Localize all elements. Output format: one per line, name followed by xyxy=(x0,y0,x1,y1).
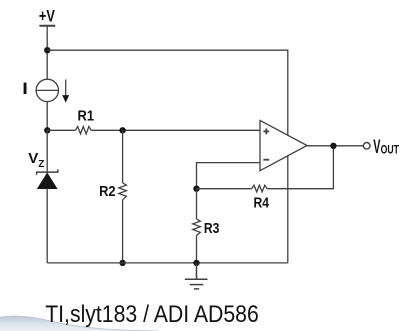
caption: TI,slyt183 / ADI AD586 xyxy=(45,301,259,328)
wire: R2 bottom lead xyxy=(122,200,124,263)
resistor R1 xyxy=(75,127,91,134)
junction: R3 / R4 feedback node xyxy=(193,186,199,192)
junction: zener / R1 node xyxy=(44,127,50,133)
junction: +V top-rail tap xyxy=(44,47,50,53)
junction: output node xyxy=(330,143,336,149)
svg-text:R4: R4 xyxy=(254,195,270,212)
wire: +V bar down to current source xyxy=(46,26,48,80)
op-amp non-inverting input mark + xyxy=(263,129,269,135)
svg-text:V: V xyxy=(373,137,380,158)
label VOUT xyxy=(373,137,399,158)
wire: R4 to output node xyxy=(267,146,333,189)
svg-text:R1: R1 xyxy=(78,108,95,125)
+V terminal bar xyxy=(39,25,55,27)
label I xyxy=(24,83,27,94)
wire: zener anode to ground rail xyxy=(46,189,48,263)
label R4 xyxy=(254,195,270,212)
wire: inverting input to feedback node xyxy=(197,163,261,189)
resistor R4 xyxy=(252,185,268,192)
wire: node down to zener cathode xyxy=(46,130,48,172)
zener diode Vz cathode bar xyxy=(37,170,58,175)
+V label xyxy=(39,7,55,25)
wire: R2 top lead xyxy=(122,130,124,183)
svg-text:R3: R3 xyxy=(204,220,220,237)
label R1 xyxy=(78,108,95,125)
junction: ground node xyxy=(193,260,199,266)
svg-text:R2: R2 xyxy=(99,183,116,200)
op-amp U1 xyxy=(260,120,307,170)
label R2 xyxy=(99,183,116,200)
wire: R3 top lead xyxy=(196,189,198,219)
junction: R2 / ground rail xyxy=(119,260,125,266)
svg-text:Z: Z xyxy=(38,159,44,170)
current source I xyxy=(36,79,58,101)
wire: ground rail xyxy=(47,262,288,264)
label Vz xyxy=(28,150,44,170)
svg-text:OUT: OUT xyxy=(381,143,400,157)
wire: op-amp V- supply down to ground rail xyxy=(287,156,289,263)
output terminal VOUT xyxy=(363,143,370,150)
current direction arrow xyxy=(62,80,69,103)
wire: R3 bottom lead xyxy=(196,236,198,263)
zener diode Vz anode triangle xyxy=(37,172,58,189)
wire: op-amp output xyxy=(307,145,363,147)
svg-text:+V: +V xyxy=(39,7,55,25)
ground xyxy=(185,263,208,289)
wire: node to R1 left lead xyxy=(47,129,75,131)
op-amp inverting input mark - xyxy=(263,159,269,161)
resistor R2 xyxy=(119,183,127,200)
label R3 xyxy=(204,220,220,237)
svg-text:V: V xyxy=(28,150,38,167)
resistor R3 xyxy=(193,219,201,236)
wire: feedback node to R4 xyxy=(197,188,252,190)
wire: R1 to op-amp non-inverting input xyxy=(91,129,260,131)
wire: top rail to op-amp V+ supply xyxy=(47,50,288,135)
wire: current source to zener node xyxy=(46,102,48,131)
junction: R1 / R2 node xyxy=(119,127,125,133)
svg-text:TI,slyt183 / ADI AD586: TI,slyt183 / ADI AD586 xyxy=(45,301,259,328)
